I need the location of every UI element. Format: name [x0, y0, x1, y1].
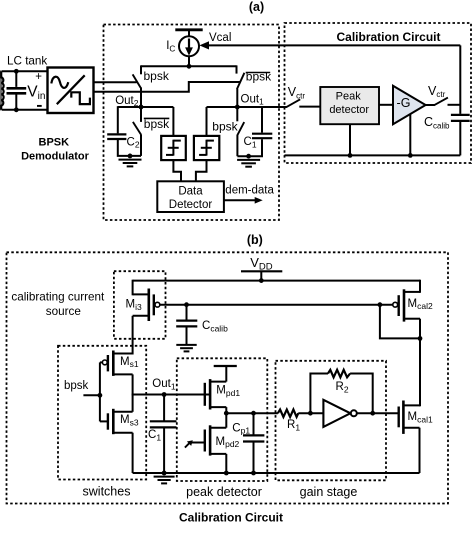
node dot VDD rail — [259, 278, 264, 283]
wire VDD rail — [133, 280, 420, 282]
wire R1 to inverter — [298, 412, 323, 414]
node dot Ccalib tap — [184, 302, 189, 307]
inverter U3 — [323, 400, 356, 427]
node dot peak detector bottom — [348, 153, 353, 158]
svg-text:calibrating current: calibrating current — [11, 290, 105, 303]
node dot C1 ground (b) — [162, 471, 167, 476]
wire peak node horizontal — [226, 412, 278, 414]
wire demod bottom output with step — [94, 82, 241, 92]
wire switch to peak detector — [299, 106, 320, 108]
svg-text:-G: -G — [397, 96, 411, 110]
svg-text:LC tank: LC tank — [7, 55, 47, 68]
node dot C1 tap (b) — [162, 392, 167, 397]
capacitor Ccalib (b) — [176, 305, 197, 345]
wire switch to Out2 node — [140, 87, 142, 108]
data detector block — [157, 181, 224, 212]
current source IC — [179, 36, 199, 56]
capacitor Cp1 — [243, 413, 264, 473]
switch bpsk-bar (right, to Out1) — [237, 73, 245, 89]
capacitor Ccalib (a) — [451, 115, 470, 155]
wire Out1 to comparator U2 — [206, 107, 208, 136]
wire Mcal2 gate-drain tie — [380, 305, 420, 339]
wire switch to Ccalib node — [448, 104, 461, 106]
switch Vctr (before peak detector) — [286, 99, 300, 107]
comparator U2 (schmitt) — [194, 136, 219, 160]
svg-text:Detector: Detector — [169, 199, 213, 211]
svg-text:Data: Data — [178, 185, 203, 197]
node dot Mcal2 drain tie — [418, 336, 423, 341]
wire Mi3 gate to Mcal2 gate — [160, 304, 394, 306]
node dot Out2 — [139, 105, 144, 110]
switch bpsk-bar (C2 branch) — [133, 107, 141, 156]
wire LC tank bottom — [2, 109, 48, 111]
node dot inverter input — [308, 411, 313, 416]
wire demod top output — [94, 81, 137, 83]
node dot Out1 — [235, 105, 240, 110]
transistor Mcal2 (PMOS) — [393, 280, 420, 407]
wire bpsk gate bus — [100, 362, 108, 421]
transistor Mi3 (PMOS) — [133, 280, 160, 355]
label bpsk-bar (C2 branch) — [144, 117, 170, 131]
wire Mpd2 gate with arrow — [185, 440, 205, 447]
svg-text:Calibration Circuit: Calibration Circuit — [336, 30, 440, 44]
peak detector block — [320, 87, 379, 124]
transistor Mpd1 (NMOS) — [205, 379, 227, 413]
node dot LC top — [14, 69, 19, 74]
wire Out1 horizontal — [207, 106, 287, 108]
node dot peak node — [224, 411, 229, 416]
wire peak detector to -G amp — [379, 104, 394, 106]
wire IC to distribution node — [188, 56, 190, 66]
wire Out1 (b) — [133, 394, 205, 396]
wire R2 feedback right leg — [350, 374, 373, 414]
node dot Mcal2 gate tie — [378, 302, 383, 307]
capacitor C2 branch — [107, 106, 141, 156]
svg-text:bpsk: bpsk — [212, 120, 238, 134]
node dot bpsk gate — [98, 393, 103, 398]
resistor R1 — [278, 410, 298, 417]
ground (C1 branch a) — [237, 160, 260, 167]
svg-text:(b): (b) — [247, 233, 263, 247]
switch bpsk (C1 branch) — [237, 107, 244, 156]
ground (C1 b) — [154, 477, 175, 484]
wire peak detector to bottom rail — [349, 124, 351, 155]
op-amp -G — [393, 86, 426, 124]
node dot Cp1 tap — [251, 411, 256, 416]
svg-text:Demodulator: Demodulator — [21, 150, 90, 162]
inductor L (LC tank, clipped at left edge) — [0, 70, 4, 110]
node dot distribution — [187, 64, 192, 69]
svg-text:+: + — [35, 71, 42, 83]
wire Mpd1 gate stub — [205, 394, 209, 396]
transistor Mpd2 (NMOS) — [205, 413, 227, 473]
svg-text:source: source — [46, 305, 81, 318]
dashed box Mi3 — [114, 271, 166, 339]
svg-text:BPSK: BPSK — [39, 137, 70, 149]
node dot C1 ground — [246, 154, 251, 159]
svg-text:Calibration Circuit: Calibration Circuit — [179, 510, 283, 524]
svg-text:(a): (a) — [249, 0, 264, 14]
supply bar above IC — [175, 28, 202, 31]
wire U1 to data detector — [173, 160, 181, 181]
comparator U1 (schmitt) — [161, 136, 186, 160]
switch Vctr (after -G) — [434, 98, 448, 106]
dashed box switches — [58, 346, 146, 480]
svg-text:Peak: Peak — [336, 90, 362, 102]
svg-text:Vcal: Vcal — [209, 32, 231, 44]
dashed box peak detector — [177, 358, 267, 481]
wire supply bar to IC — [188, 30, 190, 37]
wire dem-data arrow — [224, 197, 263, 204]
ground (C2 branch) — [119, 160, 142, 167]
svg-text:dem-data: dem-data — [225, 185, 274, 197]
wire VDD tick — [260, 271, 262, 280]
resistor R2 — [328, 370, 350, 378]
wire bpsk input — [83, 394, 100, 396]
wire Vcal with arrowhead into IC — [199, 41, 460, 49]
node dot Cp1 rail — [251, 471, 256, 476]
wire LC tank top — [2, 70, 48, 72]
label bpsk-bar (right switch) — [246, 70, 272, 84]
wire distribution drop left — [140, 65, 142, 74]
wire inverter output to Mcal1 gate — [357, 412, 399, 414]
node dot -G bottom — [408, 153, 413, 158]
BPSK demodulator block U-demod — [48, 68, 94, 114]
wire distribution drop right — [236, 65, 238, 73]
dashed box calibration circuit (a) — [285, 23, 472, 163]
wire -G output to switch — [426, 104, 435, 106]
svg-text:detector: detector — [329, 104, 369, 116]
wire distribution horizontal — [141, 65, 237, 67]
svg-text:switches: switches — [83, 485, 131, 499]
node dot C2 ground — [128, 154, 133, 159]
capacitor C (LC tank) — [7, 71, 27, 110]
svg-text:gain stage: gain stage — [300, 485, 358, 499]
wire U2 to data detector — [196, 160, 207, 181]
supply bar above Mpd1 — [214, 365, 237, 367]
dashed box calibration circuit (b) — [7, 252, 449, 503]
node dot LC bottom — [14, 107, 19, 112]
capacitor C1 branch (a) — [237, 107, 272, 156]
transistor Mcal1 (NMOS) — [399, 401, 420, 474]
capacitor C1 (b) — [150, 395, 177, 474]
wire R2 feedback left leg — [310, 374, 328, 414]
label calibrating current source — [11, 290, 105, 318]
transistor Ms1 (PMOS) — [102, 351, 132, 396]
wire -G amp to bottom rail — [409, 114, 411, 156]
wire supply to Mpd1 drain — [225, 366, 227, 382]
svg-text:bpsk: bpsk — [64, 380, 89, 392]
dashed box demodulator switch network (a) — [104, 25, 280, 221]
label Vin minus — [37, 105, 42, 107]
svg-text:peak detector: peak detector — [186, 485, 262, 499]
switch bpsk (left, to Out2) — [133, 74, 141, 87]
wire bottom rail (b) — [133, 472, 420, 474]
svg-text:bpsk: bpsk — [144, 69, 170, 83]
transistor Ms3 (NMOS) — [108, 394, 133, 473]
node dot inverter output — [370, 411, 375, 416]
wire switch to Out1 node — [236, 89, 238, 108]
ground (Ccalib b) — [176, 345, 196, 352]
wire calibration bottom rail — [285, 154, 461, 156]
svg-text:bpsk: bpsk — [246, 70, 272, 84]
node dot Mpd2 source rail — [224, 471, 229, 476]
svg-text:bpsk: bpsk — [144, 117, 170, 131]
wire Out2 to comparator U1 — [172, 107, 174, 136]
dashed box gain stage — [276, 361, 387, 481]
supply bar VDD — [241, 270, 282, 272]
wire calibration right vertical (Vcal down to Ccalib) — [459, 45, 461, 114]
wire Out2 horizontal — [118, 106, 174, 108]
